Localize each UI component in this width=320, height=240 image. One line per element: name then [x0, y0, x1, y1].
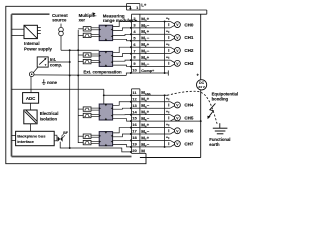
terminal 8 (M3+): [132, 59, 140, 61]
terminal 14 (M5+): [132, 114, 140, 116]
svg-text:14: 14: [132, 109, 137, 114]
svg-text:T: T: [45, 63, 47, 67]
svg-text:10: 10: [132, 68, 137, 73]
wire MANA analog ground rail (internal): [12, 88, 104, 90]
terminal 16 (M6+): [132, 127, 140, 129]
terminal 13 (M4-): [132, 107, 140, 109]
svg-text:CH4: CH4: [184, 103, 193, 108]
module frame (electronics module boundary): [11, 14, 13, 156]
internal power supply unit: [24, 25, 37, 38]
functional earth ground symbol: [219, 123, 221, 128]
wire vertical link M0+ to Comp+ (upper channel group): [164, 21, 166, 73]
measuring range module group CH6/CH7: [99, 132, 112, 146]
thermocouple channel CH6 (M6+/M6-) with voltage source V: [140, 127, 170, 129]
terminal 18 (M7+): [132, 139, 140, 141]
wire L+ from terminal 1 to DC 24V rail corner: [140, 9, 207, 11]
svg-text:CH2: CH2: [184, 48, 193, 53]
svg-text:18: 18: [132, 135, 137, 140]
svg-text:none: none: [47, 80, 58, 85]
compensation selector junction: [29, 72, 34, 77]
channel wiring area border (top and right edge, M return): [132, 13, 207, 15]
svg-text:Electrical: Electrical: [40, 111, 59, 116]
svg-text:15: 15: [132, 116, 137, 121]
multiplexer switches group CH6/CH7: [83, 134, 91, 138]
svg-text:range modules: range modules: [103, 18, 134, 23]
wire SF/backplane M return to terminal 20: [60, 142, 131, 152]
internal compensation box: [37, 57, 48, 67]
svg-text:20: 20: [132, 148, 137, 153]
svg-text:Comp+: Comp+: [141, 69, 155, 73]
svg-text:CH6: CH6: [184, 128, 193, 133]
equipotential bonding pointer arrow: [209, 103, 216, 116]
svg-text:17: 17: [132, 129, 137, 134]
svg-text:comp.: comp.: [50, 62, 62, 67]
terminal 20 (M): [132, 152, 147, 154]
svg-text:CH3: CH3: [184, 61, 193, 66]
bus multiplexer feed (vertical): [77, 30, 79, 143]
terminal 11 (MANA): [132, 94, 140, 96]
svg-text:Ext. compensation: Ext. compensation: [83, 69, 122, 74]
terminal 4 (M1+): [132, 33, 140, 35]
wire L+ supply loop from terminal 1 around module left/bottom to terminal 20 region: [6, 6, 146, 163]
svg-text:SF: SF: [63, 130, 69, 135]
wire Comp+ external compensation stub: [140, 72, 168, 74]
terminal 7 (M2-): [132, 53, 140, 55]
thermocouple channel CH3 (M3+/M3-) with voltage source V: [140, 59, 170, 61]
backplane bus interface: [16, 131, 55, 145]
equipotential bonding conductor (dashed): [167, 91, 217, 124]
svg-text:source: source: [52, 17, 67, 22]
wire internal compensation to bus: [48, 61, 69, 63]
terminal 6 (M2+): [132, 46, 140, 48]
wire current source to distribution bus: [60, 36, 62, 50]
bus compensation/common (vertical) joining M wire: [69, 50, 71, 148]
DC 24V supply source: [197, 80, 207, 90]
thermocouple channel CH1 (M1+/M1-) with voltage source V: [140, 33, 170, 35]
SF fault LED: [54, 135, 57, 141]
measuring range module group CH4/CH5: [99, 104, 112, 120]
svg-text:L+: L+: [141, 3, 147, 8]
thermocouple channel CH4 (M4+/M4-) with voltage source V: [140, 101, 170, 103]
svg-text:16: 16: [132, 122, 137, 127]
svg-text:earth: earth: [209, 142, 220, 147]
svg-text:24 V: 24 V: [198, 85, 205, 89]
svg-text:13: 13: [132, 103, 137, 108]
thermocouple channel CH5 (M5+/M5-) with voltage source V, minus tied to M rail: [140, 114, 170, 116]
svg-text:+: +: [196, 72, 199, 77]
svg-text:CH0: CH0: [184, 22, 193, 27]
ADC converter: [23, 93, 39, 104]
terminal 2 (M0+): [132, 20, 140, 22]
no-compensation option symbol (none): [43, 79, 45, 83]
thermocouple channel CH0 (M0+/M0-) with voltage source V: [140, 20, 170, 22]
wires measuring range module outputs to terminals group CH0/CH1: [113, 21, 132, 26]
svg-text:19: 19: [132, 142, 137, 147]
wires measuring range module outputs to terminals group CH4/CH5: [113, 102, 132, 106]
terminal 15 (M5-): [132, 120, 140, 122]
thermocouple channel CH7 (M7+/M7-) with voltage source V: [140, 139, 170, 141]
wires measuring range module outputs to terminals group CH2/CH3: [113, 47, 132, 53]
wire MANA external stub: [140, 94, 168, 96]
measuring range module group CH2/CH3: [99, 51, 112, 66]
terminal 17 (M6-): [132, 133, 140, 135]
svg-text:bonding: bonding: [212, 97, 229, 102]
measuring range module group CH0/CH1: [99, 25, 112, 40]
thermocouple channel CH2 (M2+/M2-) with voltage source V: [140, 46, 170, 48]
wires measuring range module outputs to terminals group CH6/CH7: [113, 128, 132, 133]
svg-text:CH1: CH1: [184, 35, 193, 40]
electrical isolation barrier: [24, 110, 37, 124]
svg-text:isolation: isolation: [40, 116, 58, 121]
svg-text:M: M: [141, 148, 145, 153]
svg-text:CH7: CH7: [184, 141, 193, 146]
terminal 12 (M4+): [132, 101, 140, 103]
wire compensation selector down to ADC: [30, 77, 32, 93]
svg-text:Power supply: Power supply: [24, 46, 53, 51]
svg-text:CH5: CH5: [184, 116, 193, 121]
terminal 3 (M0-): [132, 27, 140, 29]
svg-text:interface: interface: [17, 139, 34, 144]
wire compensation selector to Comp+ terminal: [34, 74, 126, 77]
multiplexer switches group CH2/CH3: [83, 53, 91, 57]
wire electrical isolation to backplane bus interface: [30, 124, 32, 132]
multiplexer switches group CH0/CH1: [83, 27, 91, 31]
terminal 1 (L+): [127, 3, 140, 5]
current source symbol: [60, 24, 62, 28]
terminal 10 (Comp+): [132, 72, 140, 74]
terminal 19 (M7-): [132, 146, 140, 148]
wire vertical link MANA group (lower channel group): [164, 95, 166, 147]
terminal 9 (M3-): [132, 66, 140, 68]
terminal 5 (M1-): [132, 40, 140, 42]
wire ADC to electrical isolation: [30, 103, 32, 110]
svg-text:xer: xer: [79, 17, 86, 22]
svg-text:12: 12: [132, 96, 137, 101]
svg-text:Backplane bus: Backplane bus: [17, 134, 46, 139]
terminal strip column lines: [131, 14, 133, 73]
svg-text:ADC: ADC: [26, 96, 36, 101]
multiplexer switches group CH4/CH5: [83, 107, 91, 111]
